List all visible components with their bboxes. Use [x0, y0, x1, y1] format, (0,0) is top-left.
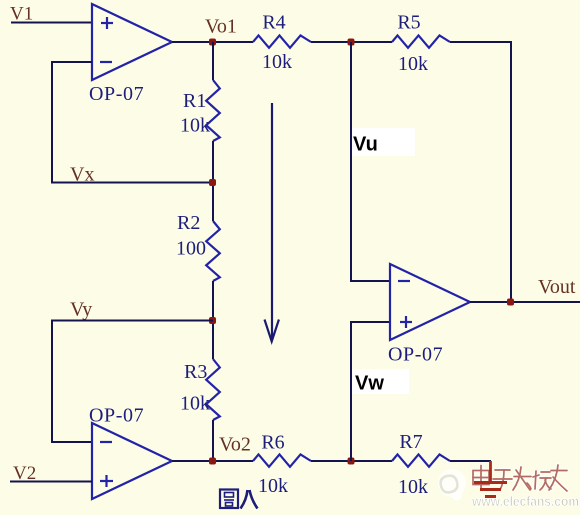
wire U3 + input to Vw net	[351, 322, 390, 461]
svg-text:100: 100	[176, 238, 206, 260]
node Vy label	[70, 299, 92, 321]
svg-text:R3: R3	[184, 361, 207, 383]
resistor R7	[392, 454, 450, 466]
resistor R4 value 10k	[262, 51, 292, 73]
node Vu label	[353, 134, 378, 156]
svg-text:Vy: Vy	[70, 299, 92, 321]
svg-text:V1: V1	[10, 4, 33, 25]
resistor R6 label	[261, 432, 284, 454]
resistor R6	[253, 454, 311, 466]
svg-text:R6: R6	[261, 432, 284, 454]
svg-text:R2: R2	[177, 212, 200, 234]
watermark text www.elecfans.com	[471, 493, 579, 509]
svg-text:R1: R1	[183, 90, 206, 112]
resistor R5 label	[397, 12, 420, 34]
op-amp U2 value OP-07	[89, 405, 144, 427]
junction R4/R5/U3	[348, 39, 355, 46]
op-amp U1	[92, 4, 172, 80]
resistor R7 value 10k	[398, 476, 428, 498]
resistor R7 label	[399, 431, 422, 453]
svg-text:10k: 10k	[398, 53, 428, 75]
node Vout label	[538, 276, 576, 298]
svg-text:OP-07: OP-07	[89, 405, 144, 427]
watermark logo circle	[438, 469, 466, 501]
op-amp U3 value OP-07	[388, 344, 443, 366]
wire U3 output to Vout	[470, 301, 580, 303]
node Vo1 label	[205, 16, 237, 38]
svg-text:10k: 10k	[262, 51, 292, 73]
resistor R1 label	[183, 90, 206, 112]
resistor R2 label	[177, 212, 200, 234]
svg-text:R5: R5	[397, 12, 420, 34]
junction Vo1	[209, 39, 216, 46]
svg-text:Vo2: Vo2	[219, 434, 251, 456]
wire U1 feedback (- input to Vx node)	[52, 62, 213, 183]
node Vo2 label	[219, 434, 251, 456]
resistor R6 value 10k	[258, 475, 288, 497]
junction Vy	[209, 317, 216, 324]
resistor R3 label	[184, 361, 207, 383]
wire R3 to Vo2	[212, 420, 214, 461]
ground	[474, 461, 507, 497]
resistor R5 value 10k	[398, 53, 428, 75]
svg-text:10k: 10k	[180, 393, 210, 415]
node Vx label	[70, 164, 94, 186]
wire R1 to R2 through Vx	[212, 141, 214, 221]
op-amp U1 value OP-07	[89, 83, 144, 105]
svg-text:R7: R7	[399, 431, 422, 453]
node Vw label	[355, 373, 384, 395]
resistor R2 value 100	[176, 238, 206, 260]
wire R2 to R3 through Vy	[212, 281, 214, 359]
watermark text 电子发烧友	[473, 465, 567, 491]
wire V1 to U1 + input	[11, 22, 92, 24]
resistor R3 value 10k	[180, 393, 210, 415]
svg-text:Vx: Vx	[70, 164, 94, 186]
svg-text:R4: R4	[262, 12, 285, 34]
junction Vo2	[209, 458, 216, 465]
svg-text:Vout: Vout	[538, 276, 576, 298]
node V1 label	[10, 4, 33, 25]
junction R6/R7/U3 + input	[348, 458, 355, 465]
junction Vout	[507, 299, 514, 306]
junction Vx	[209, 179, 216, 186]
svg-text:Vw: Vw	[355, 373, 384, 395]
wire U1 output to Vo1	[172, 41, 253, 43]
wire R7 to ground	[450, 460, 491, 462]
node V2 label	[13, 463, 36, 484]
figure caption 圖八	[220, 490, 258, 509]
op-amp U3	[390, 264, 470, 340]
svg-text:10k: 10k	[258, 475, 288, 497]
svg-text:10k: 10k	[398, 476, 428, 498]
wire Vy node to U2 - input	[52, 321, 213, 443]
op-amp U2	[92, 423, 172, 499]
wire R6 to R7	[311, 460, 392, 462]
wire R5 to Vout net	[450, 42, 511, 302]
resistor R3	[206, 359, 220, 420]
svg-text:Vo1: Vo1	[205, 16, 237, 38]
resistor R4 label	[262, 12, 285, 34]
node Vu label box	[352, 128, 415, 156]
svg-text:Vu: Vu	[353, 134, 378, 156]
svg-text:10k: 10k	[180, 115, 210, 137]
wire U2 output to Vo2	[172, 460, 253, 462]
wire V2 to U2 + input	[10, 481, 92, 483]
wire Vo1 to R1	[212, 42, 214, 80]
svg-text:OP-07: OP-07	[89, 83, 144, 105]
resistor R1 value 10k	[180, 115, 210, 137]
resistor R4	[253, 35, 311, 47]
current direction arrow	[265, 103, 279, 342]
wire U3 - input to Vu net	[351, 42, 390, 281]
resistor R1	[206, 80, 220, 141]
resistor R2	[206, 221, 220, 281]
wire R4 to R5	[311, 41, 392, 43]
node Vw label box	[352, 369, 409, 394]
svg-text:OP-07: OP-07	[388, 344, 443, 366]
resistor R5	[392, 35, 450, 47]
